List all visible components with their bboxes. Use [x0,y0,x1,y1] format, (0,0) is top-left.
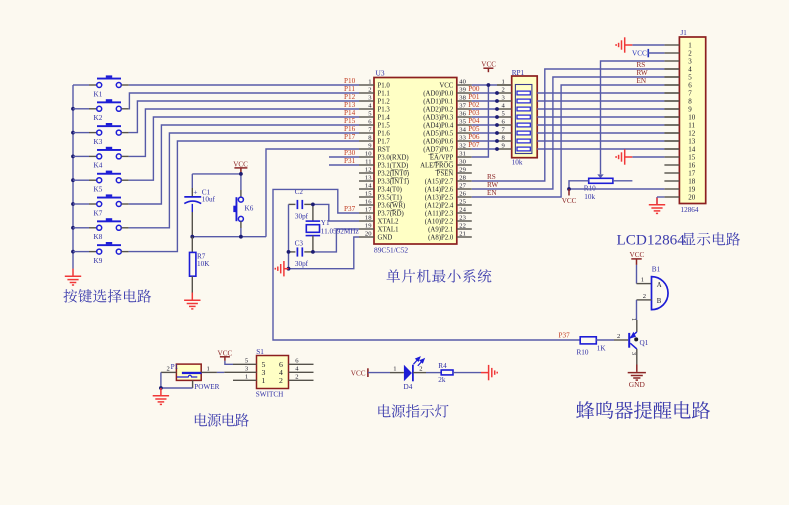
svg-text:RP1: RP1 [512,69,525,77]
svg-text:1: 1 [245,373,248,380]
svg-text:10K: 10K [197,260,210,268]
svg-text:33: 33 [459,134,466,141]
svg-text:VCC: VCC [630,251,645,259]
svg-text:1: 1 [641,277,644,284]
svg-text:Q1: Q1 [640,339,649,347]
svg-text:VCC: VCC [439,82,453,89]
wire P0.6 net [472,140,497,142]
svg-text:P31: P31 [344,157,356,165]
svg-text:19: 19 [688,186,696,194]
junction key bus [71,131,75,135]
svg-text:35: 35 [459,118,466,125]
svg-text:28: 28 [459,174,466,181]
resistor R10 (base) [577,337,607,357]
J1 pin 8 [664,98,692,106]
U3 pin 37 [423,102,472,113]
ground P1 [153,388,169,404]
svg-text:(AD4)P0.4: (AD4)P0.4 [423,122,454,129]
U3 pin 5 [359,110,390,121]
pushbutton K2 [73,99,129,122]
ground GND (buzzer) [628,365,646,390]
svg-text:D4: D4 [404,383,413,391]
svg-text:2: 2 [295,373,298,380]
svg-text:P1: P1 [171,363,179,371]
J1 pin 10 [664,114,695,122]
svg-text:(A12)P2.4: (A12)P2.4 [425,202,454,209]
pushbutton K5 [73,171,129,194]
U3 pin 22 [428,222,472,233]
svg-text:P1.7: P1.7 [378,138,391,145]
wire DB7 to LCD J1 pin 14 [537,148,664,150]
wire P1 ground link [161,372,193,388]
svg-text:(A10)P2.2: (A10)P2.2 [425,218,454,225]
junction key bus [71,202,75,206]
wire EN net [472,85,665,197]
svg-text:15: 15 [688,154,696,162]
svg-text:XTAL2: XTAL2 [378,218,400,225]
U3 pin 4 [359,102,390,113]
svg-text:5: 5 [688,74,692,82]
junction C1 [190,235,194,239]
RP1 resistor element 4 [517,115,530,119]
svg-text:(A8)P2.0: (A8)P2.0 [428,234,454,241]
J1 pin 4 [664,66,692,74]
svg-text:P1.4: P1.4 [378,114,391,121]
svg-text:13: 13 [365,174,372,181]
pushbutton K6 [233,190,253,237]
wire VCC pin40 [472,84,497,86]
U3 pin 40 [439,78,471,89]
svg-text:B1: B1 [652,265,661,273]
power VCC (S1) [218,349,233,361]
ground LED circuit [481,365,497,380]
wire K4 to MCU P1.3 [129,109,359,156]
J1 pin 14 [664,146,695,154]
U3 pin 21 [428,230,472,241]
svg-text:18: 18 [365,214,372,221]
wire DB5 to LCD J1 pin 12 [537,132,664,134]
crystal Y1 [306,204,359,252]
svg-text:+: + [193,188,197,197]
U3 pin 36 [423,110,472,121]
pushbutton K9 [73,242,129,265]
svg-text:29: 29 [459,166,466,173]
wire P1 to S1 pin3 [217,371,224,373]
U3 pin 12 [359,166,409,177]
svg-text:Y1: Y1 [321,219,330,227]
wire K1 to MCU P1.0 [129,84,359,86]
svg-text:26: 26 [459,190,466,197]
svg-text:2: 2 [617,333,620,340]
svg-text:12: 12 [365,166,372,173]
svg-text:3: 3 [688,58,692,66]
svg-text:24: 24 [459,206,466,213]
junction RP1 pin 4 [495,107,499,111]
svg-text:K3: K3 [94,138,103,146]
wire J1 pin15 to ground [632,156,664,158]
svg-text:K7: K7 [94,209,103,217]
svg-text:31: 31 [459,150,466,157]
U3 pin 15 [359,190,402,201]
svg-text:VCC: VCC [481,61,496,69]
svg-text:1: 1 [688,42,692,50]
svg-text:1: 1 [502,79,505,86]
U3 pin 29 [435,166,472,177]
power VCC (buzzer) [630,251,645,265]
svg-text:P05: P05 [468,125,480,133]
svg-text:12: 12 [688,130,696,138]
U3 pin 34 [423,126,472,137]
svg-text:RST: RST [378,146,391,153]
title 蜂鸣器提醒电路 [576,401,594,419]
svg-text:15: 15 [365,190,372,197]
svg-text:P00: P00 [468,85,480,93]
pushbutton K3 [73,123,129,146]
svg-text:EN: EN [487,189,497,197]
svg-text:9: 9 [688,106,692,114]
RP1 pin 9 [497,143,512,150]
svg-text:K5: K5 [94,186,103,194]
RP1 pin 6 [497,119,512,126]
svg-text:20: 20 [365,230,372,237]
svg-text:(AD5)P0.5: (AD5)P0.5 [423,130,454,137]
P1 pin 2 [161,365,177,372]
svg-text:P14: P14 [344,109,356,117]
resistor R4 [438,362,453,384]
pushbutton K1 [73,75,129,98]
wire R4 to ground [453,372,481,374]
svg-text:10: 10 [365,150,372,157]
svg-text:89C51/C52: 89C51/C52 [374,246,408,255]
U3 pin 3 [359,94,390,105]
svg-text:SWITCH: SWITCH [256,391,284,399]
IC U3 89C51/C52 [374,68,457,254]
svg-text:36: 36 [459,110,466,117]
svg-text:K9: K9 [94,257,103,265]
J1 pin 6 [664,82,692,90]
svg-text:(AD0)P0.0: (AD0)P0.0 [423,90,454,97]
U3 pin 35 [423,118,472,129]
junction K6 [239,235,243,239]
junction VCC node [239,172,243,176]
svg-text:1: 1 [393,366,396,373]
RP1 pin 2 [497,87,512,94]
RP1 resistor element 8 [517,147,530,151]
svg-text:20: 20 [688,194,696,202]
svg-text:(AD2)P0.2: (AD2)P0.2 [423,106,454,113]
U3 pin 1 [359,78,390,89]
svg-text:12864: 12864 [681,206,699,214]
svg-text:17: 17 [365,206,372,213]
svg-text:32: 32 [459,142,466,149]
wire XTAL2 net [313,204,359,221]
U3 pin 6 [359,118,390,129]
U3 pin 26 [425,190,472,201]
svg-text:2: 2 [688,50,692,58]
wire VCC to S1 pin5 [225,361,233,365]
svg-text:7: 7 [688,90,692,98]
U3 pin 10 [359,150,409,161]
J1 pin 18 [664,178,695,186]
wire P31 stub [329,164,359,166]
U3 pin 7 [359,126,390,137]
svg-text:P37: P37 [344,205,356,213]
svg-text:(AD1)P0.1: (AD1)P0.1 [423,98,453,105]
svg-text:2: 2 [502,87,505,94]
switch S1 [256,348,289,399]
J1 pin 2 [664,50,692,58]
junction ground rail [287,267,291,271]
svg-text:17: 17 [688,170,696,178]
pushbutton K4 [73,147,129,170]
pushbutton K7 [73,194,129,217]
svg-text:10uf: 10uf [202,196,216,204]
svg-text:1: 1 [207,365,210,372]
wire J1 pin19 [569,188,664,190]
ground J1 pin15 [616,149,632,164]
power VCC (J1 pin2, bar style) [632,49,664,58]
svg-text:K1: K1 [94,90,103,98]
svg-text:(A9)P2.1: (A9)P2.1 [428,226,453,233]
transistor Q1 [628,332,648,349]
wire J1 pin20 to ground [657,196,664,198]
U3 pin 25 [425,198,472,209]
junction key bus [71,250,75,254]
J1 pin 15 [664,154,695,162]
svg-text:P3.6(̅W̅R̅): P3.6(̅W̅R̅) [378,202,406,209]
U3 pin 2 [359,86,390,97]
svg-text:38: 38 [459,94,466,101]
U3 pin 38 [423,94,472,105]
svg-text:R10: R10 [577,349,589,357]
wire P37 net [273,189,580,340]
junction RP1 pin 7 [495,131,499,135]
wire VCC to D4 [368,372,390,374]
RP1 resistor element 7 [517,139,530,143]
svg-text:13: 13 [688,138,696,146]
wire R10 left to VCC [569,181,589,189]
P1 pin bottom [192,380,194,388]
svg-text:2: 2 [167,365,170,372]
wire EA/VPP tie [472,85,489,157]
J1 pin 19 [664,186,695,194]
wire DB3 to LCD J1 pin 10 [537,116,664,118]
ground R7 [184,293,200,309]
svg-text:27: 27 [459,182,466,189]
J1 pin 12 [664,130,695,138]
wire P30 stub [329,156,359,158]
ground J1 pin1 [616,37,632,52]
wire P0.7 net [472,148,497,150]
wire K3 to MCU P1.2 [129,101,359,133]
svg-text:P1.2: P1.2 [378,98,391,105]
power VCC (below R10) [562,189,577,205]
wire P0.1 net [472,100,497,102]
J1 pin 20 [664,194,695,202]
J1 pin 3 [664,58,692,66]
svg-text:4: 4 [688,66,692,74]
wire VCC to B1 pin1 [636,265,638,284]
U3 pin 13 [359,174,409,185]
svg-text:R4: R4 [438,362,447,370]
svg-text:21: 21 [459,230,466,237]
connector P1 POWER [171,363,220,391]
U3 pin 32 [423,142,472,153]
svg-text:P3.7(̅R̅D̅): P3.7(̅R̅D̅) [378,210,404,217]
junction C3 left [287,250,291,254]
RP1 resistor element 6 [517,131,530,135]
U3 pin 17 [359,206,404,217]
svg-text:RW: RW [637,69,648,77]
svg-text:C3: C3 [295,240,304,248]
junction VCC/R10 [567,187,571,191]
svg-text:(AD6)P0.6: (AD6)P0.6 [423,138,454,145]
junction key bus [71,155,75,159]
svg-text:K8: K8 [94,233,103,241]
svg-text:P30: P30 [344,149,356,157]
capacitor C3 [289,240,313,268]
svg-text:P12: P12 [344,93,356,101]
svg-text:34: 34 [459,126,466,133]
wire P0.4 net [472,124,497,126]
svg-text:P3.5(T1): P3.5(T1) [378,194,402,201]
svg-text:2: 2 [279,376,283,385]
wire P0.5 net [472,132,497,134]
U3 pin 11 [359,158,408,169]
RP1 pin 3 [497,95,512,102]
junction VCC/EA [487,83,491,87]
junction P1 ground [159,386,163,390]
svg-text:RW: RW [487,181,498,189]
J1 pin 7 [664,90,692,98]
svg-text:2: 2 [643,293,646,300]
svg-text:23: 23 [459,214,466,221]
wire RW net [472,77,665,189]
svg-text:10: 10 [688,114,696,122]
U3 pin 14 [359,182,402,193]
resistor R7 [190,237,211,293]
svg-text:P02: P02 [468,101,480,109]
junction RP1 pin 3 [495,99,499,103]
U3 pin 9 [359,142,391,153]
junction RP1 pin 2 [495,91,499,95]
svg-text:EN: EN [637,77,647,85]
ground J1 pin20 [649,198,665,214]
svg-text:RS: RS [637,61,646,69]
svg-text:̅P̅S̅E̅N̅: ̅P̅S̅E̅N̅ [435,170,454,177]
J1 pin 13 [664,138,695,146]
svg-text:VCC: VCC [562,197,577,205]
junction RP1 pin 9 [495,147,499,151]
svg-text:39: 39 [459,86,466,93]
U3 pin 31 [428,150,472,161]
ground key bus [65,269,81,285]
svg-text:P13: P13 [344,101,356,109]
svg-text:P1.0: P1.0 [378,82,391,89]
svg-text:2: 2 [368,86,371,93]
svg-text:(A13)P2.5: (A13)P2.5 [425,194,454,201]
svg-text:(A14)P2.6: (A14)P2.6 [425,186,454,193]
svg-text:XTAL1: XTAL1 [378,226,399,233]
potentiometer R10 [584,174,613,201]
svg-text:POWER: POWER [194,383,219,391]
svg-text:VCC: VCC [351,369,366,377]
wire B1 pin2 to Q1 collector [637,299,652,301]
U3 pin 39 [423,86,472,97]
wire DB4 to LCD J1 pin 11 [537,124,664,126]
S1 pin 6 [279,357,314,369]
wire R10 right [613,180,633,182]
RP1 pin 4 [497,103,512,110]
capacitor C2 [289,188,313,221]
svg-text:S1: S1 [256,348,264,356]
title 电源电路 [195,413,207,426]
U3 pin 16 [359,198,405,209]
svg-text:P1.1: P1.1 [378,90,390,97]
junction RP1 pin 5 [495,115,499,119]
svg-text:30pf: 30pf [295,212,309,220]
svg-text:8: 8 [688,98,692,106]
wire DB1 to LCD J1 pin 8 [537,100,664,102]
junction key bus [71,178,75,182]
ground crystal [275,261,288,276]
wire K2 to MCU P1.1 [129,93,359,109]
junction RP1 pin 6 [495,123,499,127]
svg-text:P17: P17 [344,133,356,141]
wire D4 to R4 [413,372,426,374]
wire XTAL1 net [313,229,359,252]
RP1 pin 1 [497,79,512,86]
wire R10 to Q1 base [596,339,614,341]
wire J1 pin1 to ground [632,44,664,46]
svg-text:(AD7)P0.7: (AD7)P0.7 [423,146,454,153]
RP1 pin 5 [497,111,512,118]
svg-text:P37: P37 [559,332,571,340]
resistor pack RP1 [512,69,538,167]
wire K7 to MCU P1.5 [129,125,359,204]
title 按键选择电路 [63,289,77,302]
U3 pin 33 [423,134,472,145]
svg-text:11.0592MHz: 11.0592MHz [321,228,359,236]
svg-text:̅E̅A̅/VPP: ̅E̅A̅/VPP [428,154,454,161]
svg-text:1: 1 [630,318,637,321]
J1 pin 5 [664,74,692,82]
wire RST [266,149,359,237]
svg-text:P10: P10 [344,77,356,85]
svg-text:14: 14 [365,182,372,189]
J1 pin 11 [664,122,695,130]
svg-text:25: 25 [459,198,466,205]
svg-text:P03: P03 [468,109,480,117]
svg-text:VCC: VCC [632,50,647,58]
svg-text:U3: U3 [376,68,385,77]
wire DB6 to LCD J1 pin 13 [537,140,664,142]
S1 pin 3 [224,365,265,377]
svg-text:30: 30 [459,158,466,165]
junction RP1 pin 8 [495,139,499,143]
S1 pin 5 [233,357,266,369]
svg-text:2k: 2k [438,376,446,384]
P1 pin 1 wire to S1 [201,365,217,372]
svg-text:P3.0(RXD): P3.0(RXD) [378,154,409,161]
RP1 pin 7 [497,127,512,134]
svg-text:11: 11 [688,122,695,130]
wire P0.2 net [472,108,497,110]
wire DB0 to LCD J1 pin 7 [537,92,664,94]
wire P0.0 net [472,92,497,94]
svg-text:P11: P11 [344,85,355,93]
wire GND pin20 net [289,237,360,269]
